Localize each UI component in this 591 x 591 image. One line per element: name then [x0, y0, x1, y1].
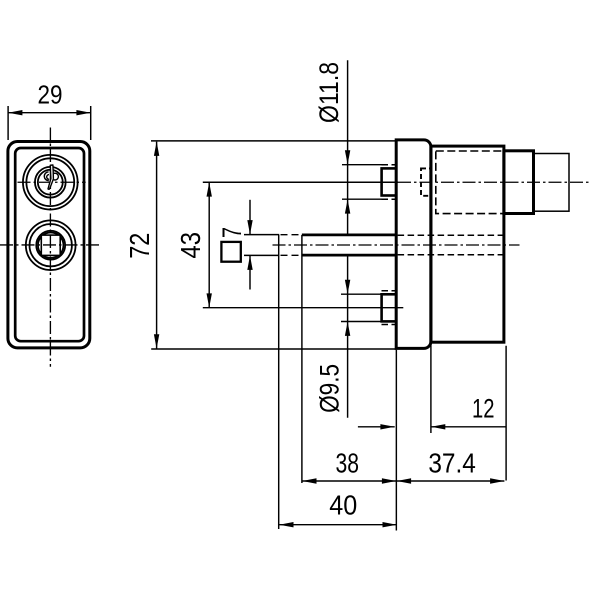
svg-text:Ø9.5: Ø9.5: [314, 364, 344, 413]
svg-text:29: 29: [38, 79, 63, 109]
svg-text:7: 7: [217, 227, 247, 238]
svg-text:43: 43: [175, 232, 206, 259]
svg-text:12: 12: [472, 394, 495, 424]
svg-text:38: 38: [336, 448, 360, 479]
svg-text:72: 72: [124, 233, 155, 259]
svg-text:Ø11.8: Ø11.8: [314, 62, 344, 123]
svg-text:40: 40: [329, 489, 357, 520]
svg-text:37.4: 37.4: [428, 448, 476, 479]
